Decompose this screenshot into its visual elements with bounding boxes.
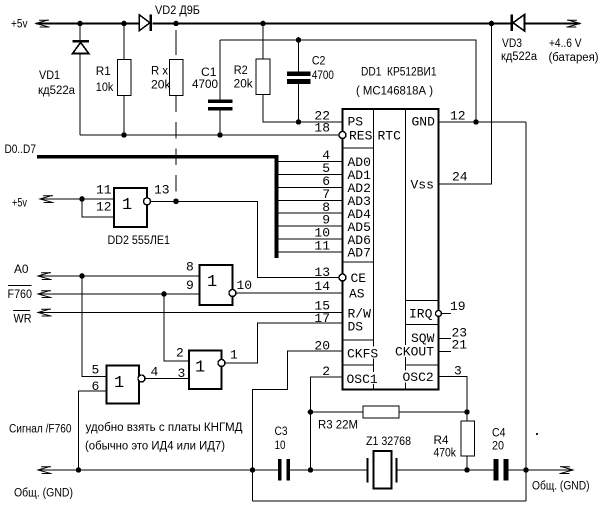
node WR arrow [38,309,52,316]
svg-text:RES: RES [349,129,373,144]
svg-text:2: 2 [322,364,330,379]
bus D0..D7 [37,155,279,159]
capacitor C2 [287,71,311,76]
svg-text:DD2 555ЛЕ1: DD2 555ЛЕ1 [108,235,171,247]
wire IRQ stub pin 19 [442,313,451,315]
junction pin12 to top gnd line [473,119,479,125]
wire F760 branch down to pin 2 [164,294,189,361]
wire A0 to pin 8 [38,275,200,277]
wire AD2 [279,186,343,188]
wire C2 bottom to PS line [298,84,300,122]
svg-text:9: 9 [186,278,194,293]
gate DD2.2 box pins 2 3 1 [189,351,222,390]
wire R3 left [311,411,364,413]
svg-text:13: 13 [154,183,170,198]
IC internal line right [405,109,407,390]
svg-text:(батарея): (батарея) [549,52,599,64]
stray dot artifact [536,433,538,435]
svg-text:10: 10 [237,278,253,293]
svg-text:1: 1 [122,196,132,215]
svg-text:+5v: +5v [12,198,27,210]
junction on rail at Rx [173,21,179,27]
wire pin 4 output to pin 3 [145,378,189,380]
svg-text:F760: F760 [8,289,33,301]
wire R1 top [123,24,125,60]
junction on rail at R1 [121,21,127,27]
gate DD2.4 box pins 11 12 13 [114,188,147,227]
gate DD2.3 output circle [229,290,236,297]
wire R3 right [399,411,467,413]
IRQ inversion circle pin 19 [436,311,442,317]
wire GND top line y40 [220,40,476,122]
junction rail at battery branch [489,21,495,27]
node gnd arrow left [38,466,52,473]
svg-text:удобно взять с платы КНГМД: удобно взять с платы КНГМД [86,422,243,434]
resistor Rx [170,60,184,96]
svg-text:C2: C2 [312,56,326,68]
svg-text:DS: DS [348,320,364,335]
svg-text:13: 13 [314,265,330,280]
svg-text:CKFS: CKFS [347,347,378,362]
wire CKFS pin 20 to gnd [253,351,343,501]
junction on rail at R2 [260,21,266,27]
svg-text:4700: 4700 [192,79,218,91]
junction OSC2 at R3 [464,409,470,415]
wire Rx dashed top [175,30,177,55]
wire AD7 [279,251,343,253]
junction OSC1 gnd wire [308,467,314,473]
svg-text:5: 5 [92,363,100,378]
svg-text:C4: C4 [492,428,506,440]
IC separator below AD7 [343,261,374,263]
svg-text:R4: R4 [434,435,450,447]
svg-text:3: 3 [454,364,462,379]
diode VD1 [73,40,89,43]
label WR overline [13,310,30,312]
svg-text:8: 8 [186,260,194,275]
svg-text:Vss: Vss [411,178,434,193]
svg-text:VD1: VD1 [39,70,60,82]
IC separator above OSC2 [406,364,439,366]
svg-text:IRQ: IRQ [409,307,433,322]
svg-text:4: 4 [151,365,159,380]
svg-text:R3 22M: R3 22M [318,420,358,432]
junction gnd right vertical [523,467,529,473]
wire +5v rail top [36,23,580,25]
gate DD2.3 box pins 8 9 10 [200,265,233,305]
svg-text:R x: R x [151,66,168,78]
wire pin 6 input from gnd [79,391,107,470]
svg-text:19: 19 [450,299,466,314]
svg-text:кд522а: кд522а [38,85,76,97]
svg-text:12: 12 [450,109,466,124]
wire WR to R/W pin 15 [38,312,343,314]
pin label CKOUT [394,345,436,357]
svg-text:11: 11 [314,239,330,254]
label F760 overline [8,285,32,287]
wire AD6 [279,238,343,240]
node battery arrow right [566,20,580,27]
svg-text:20k: 20k [151,80,171,92]
capacitor C1 [208,100,233,104]
svg-text:AS: AS [349,287,365,302]
svg-text:20: 20 [314,339,330,354]
diode VD3 [513,15,525,32]
wire gnd main left [38,469,278,471]
svg-text:кд522а: кд522а [501,51,538,63]
op-amp U1: IC DD1 body [343,109,439,390]
IC internal line left [373,109,375,390]
wire R2 bottom to PS [263,95,343,123]
IC separator above IRQ [406,299,439,301]
wire C2 top [298,40,300,71]
wire AD3 [279,199,343,201]
resistor R3 [363,406,399,418]
resistor R2 [256,59,270,95]
wire OSC1 pin 2 [311,377,343,470]
IC separator above OSC1 [343,364,374,366]
svg-text:C3: C3 [275,426,288,438]
svg-text:6: 6 [92,379,100,394]
svg-text:GND: GND [412,115,436,130]
svg-text:A0: A0 [14,264,29,276]
RES inversion circle pin 18 [339,132,346,139]
svg-text:12: 12 [96,200,112,215]
wire F760 to pin 9 [38,293,200,295]
svg-text:(обычно это ИД4 или ИД7): (обычно это ИД4 или ИД7) [85,441,225,453]
svg-text:20k: 20k [234,78,253,90]
gate DD2.4 output circle [144,198,151,205]
wire C1 bottom [219,111,221,135]
svg-text:2: 2 [176,346,184,361]
wire C1 top [219,40,221,100]
wire pin 10 output to AS pin 14 [236,292,343,294]
wire VD1 top [79,24,81,41]
node F760 arrow [38,290,52,297]
wire Rx dashed bottom [175,96,177,202]
node gnd arrow right [559,466,573,473]
svg-text:17: 17 [314,311,330,326]
wire gnd C3 to crystal [290,469,367,471]
node +5v arrow mid [40,195,54,202]
svg-text:( МС146818А ): ( МС146818А ) [356,86,433,98]
node +5v arrow left [36,20,50,27]
svg-text:VD2 Д9Б: VD2 Д9Б [155,5,200,17]
capacitor C4 [494,459,499,481]
svg-text:OSC2: OSC2 [403,370,434,385]
svg-text:+4..6 V: +4..6 V [549,38,582,50]
svg-text:PS: PS [348,115,364,130]
wire CKOUT stub pin 21 [439,351,452,353]
svg-text:1: 1 [195,359,205,378]
gate DD2.2 output circle [218,360,225,367]
svg-text:1: 1 [207,273,217,292]
IC separator above CKFS [343,339,374,341]
svg-text:R1: R1 [96,66,111,78]
junction C2 top [296,37,302,43]
wire gnd right segment [509,469,574,471]
crystal Z1 [374,451,392,489]
gate DD2.1 box pins 5 6 4 [107,366,140,404]
pin label OSC1 [345,372,379,384]
svg-text:D0..D7: D0..D7 [5,144,37,156]
svg-text:Сигнал /F760: Сигнал /F760 [9,424,72,436]
gate DD2.1 output circle [138,375,145,382]
svg-text:3: 3 [178,366,186,381]
svg-text:Общ. (GND): Общ. (GND) [532,481,590,493]
junction on RES line at R1 [121,132,127,138]
junction pin11/12 tie [79,196,85,202]
resistor R1 [118,60,132,96]
wire gnd right vertical [525,122,527,501]
wire R2 top [262,24,264,60]
node A0 arrow [38,272,52,279]
wire AD1 [279,173,343,175]
svg-text:VD3: VD3 [502,38,522,50]
capacitor C3 [278,459,282,481]
wire OSC2 pin 3 [439,377,468,422]
svg-text:11: 11 [96,183,112,198]
svg-text:24: 24 [452,170,468,185]
wire pin 13 output to CE [151,201,340,277]
pin label CKFS [345,347,381,359]
wire pin 12 input [82,199,114,217]
svg-text:RTC: RTC [378,129,402,144]
wire Vss branch from rail [439,24,492,185]
svg-text:14: 14 [314,279,330,294]
svg-text:CKOUT: CKOUT [395,345,434,360]
wire VD1 bottom to RES line [79,54,81,136]
wire gnd bottom loop [253,500,527,502]
svg-text:18: 18 [314,121,330,136]
wire pin 11 input [40,198,114,200]
svg-text:DD1 КР512ВИ1: DD1 КР512ВИ1 [361,67,437,79]
IC separator below RES [343,147,374,149]
svg-text:4700: 4700 [312,70,334,82]
svg-text:10: 10 [275,440,286,452]
wire SQW stub pin 23 [439,338,452,340]
wire crystal to C4 [398,469,494,471]
junction OSC1 at R3 [308,409,314,415]
svg-text:470k: 470k [434,448,457,460]
wire R1 bottom [123,96,125,136]
junction Rx dashed to pin13 wire [173,199,179,205]
wire AD0 [279,161,343,163]
wire pin 1 output to DS pin 17 [225,323,343,363]
svg-text:Z1 32768: Z1 32768 [366,436,411,448]
junction on RES line at C1 [217,132,223,138]
CE inversion circle pin 13 [339,274,346,281]
svg-text:1: 1 [230,348,238,363]
svg-text:20: 20 [492,441,504,453]
wire RES line [80,134,339,136]
wire A0 branch down to pin 5 [82,276,107,377]
wire AD4 [279,212,343,214]
junction A0 branch [79,273,85,279]
svg-text:WR: WR [14,314,32,326]
resistor R4 [461,421,475,456]
svg-text:+5v: +5v [11,19,28,31]
junction on rail at VD1 [77,21,83,27]
svg-text:R2: R2 [234,65,248,77]
svg-text:Общ. (GND): Общ. (GND) [14,488,73,500]
wire AD5 [279,225,343,227]
svg-text:1: 1 [114,374,124,393]
svg-text:OSC1: OSC1 [347,372,378,387]
junction pin6 gnd [76,467,82,473]
pin label OSC2 [402,371,436,383]
junction C2 bottom on PS line [296,119,302,125]
junction CKFS gnd [250,467,256,473]
junction R4 gnd [464,467,470,473]
diode VD2 [139,15,150,32]
svg-text:AD7: AD7 [348,246,371,261]
wire R4 bottom [466,456,468,470]
junction F760 branch [161,291,167,297]
svg-text:21: 21 [452,338,468,353]
svg-text:C1: C1 [201,67,217,79]
svg-text:CE: CE [351,271,367,286]
svg-text:10k: 10k [96,82,114,94]
IC separator below IRQ [406,324,439,326]
wire GND pin 12 [439,121,527,123]
